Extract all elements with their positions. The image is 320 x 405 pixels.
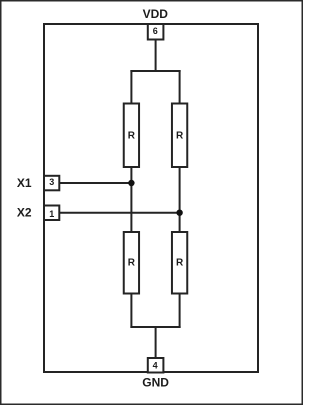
junction node X2: [176, 210, 182, 216]
resistor R3: [124, 232, 139, 294]
wire top bar node A: [130, 70, 180, 72]
svg-text:R: R: [128, 131, 136, 142]
svg-text:R: R: [176, 258, 184, 269]
svg-text:4: 4: [153, 361, 158, 371]
wire pin6 to top node: [155, 40, 157, 72]
pin 1 box: [44, 206, 59, 221]
wire top bar to R2: [179, 70, 181, 104]
junction node X1: [128, 180, 134, 186]
wire pin3 to node X1: [60, 182, 132, 184]
svg-text:6: 6: [153, 26, 158, 36]
svg-text:GND: GND: [142, 376, 169, 390]
wire top bar to R1: [130, 70, 132, 104]
svg-text:3: 3: [49, 177, 54, 187]
wire pin1 to node X2: [60, 212, 180, 214]
pin 3 box: [44, 176, 59, 191]
IC body U1: [44, 24, 258, 372]
svg-text:1: 1: [49, 209, 54, 219]
pin 6 box: [148, 24, 164, 40]
svg-text:R: R: [128, 258, 136, 269]
resistor R2: [172, 104, 187, 168]
wire bottom bar node B: [130, 326, 180, 328]
svg-text:R: R: [176, 131, 184, 142]
svg-text:VDD: VDD: [143, 7, 169, 21]
svg-text:X2: X2: [17, 205, 32, 219]
wire R3 to bottom bar: [130, 293, 132, 329]
resistor R4: [172, 232, 187, 294]
wire bottom node to pin4: [155, 327, 157, 358]
wire R4 to bottom bar: [179, 293, 181, 329]
wire R2 to R4 through node X2: [179, 167, 181, 233]
svg-text:X1: X1: [17, 176, 32, 190]
pin 4 box: [148, 358, 164, 373]
resistor R1: [124, 104, 139, 168]
wire R1 to R3 through node X1: [130, 167, 132, 233]
